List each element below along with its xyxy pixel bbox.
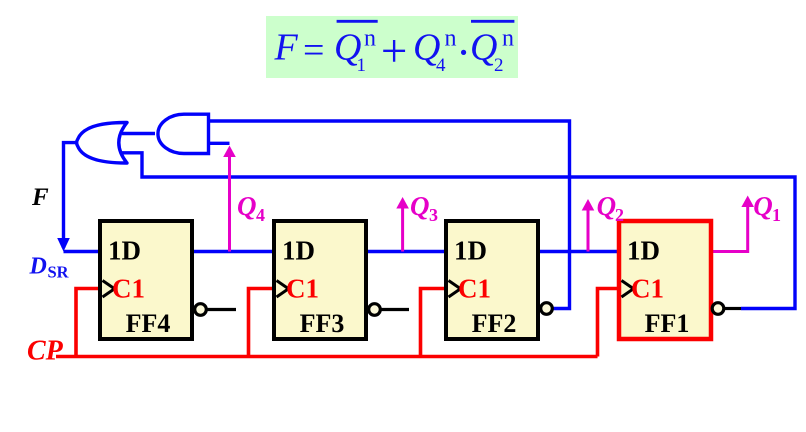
- svg-text:Q: Q: [753, 191, 773, 221]
- svg-text:FF1: FF1: [645, 309, 690, 338]
- svg-text:C1: C1: [631, 274, 664, 304]
- svg-text:2: 2: [615, 205, 624, 225]
- svg-text:n: n: [364, 26, 376, 52]
- svg-text:FF3: FF3: [300, 309, 345, 338]
- svg-text:1: 1: [772, 205, 781, 225]
- svg-text:Q: Q: [410, 191, 430, 221]
- svg-text:C1: C1: [458, 274, 491, 304]
- svg-text:C1: C1: [112, 274, 145, 304]
- svg-text:D: D: [29, 254, 47, 280]
- svg-text:3: 3: [429, 205, 438, 225]
- svg-text:C1: C1: [286, 274, 319, 304]
- svg-text:F: F: [274, 27, 299, 69]
- svg-text:FF2: FF2: [472, 309, 517, 338]
- svg-text:·: ·: [456, 28, 471, 77]
- svg-text:SR: SR: [48, 263, 70, 282]
- svg-text:1D: 1D: [627, 236, 660, 266]
- svg-text:4: 4: [436, 55, 446, 76]
- svg-text:1: 1: [357, 55, 367, 76]
- svg-text:CP: CP: [27, 335, 64, 366]
- svg-text:n: n: [502, 26, 514, 52]
- svg-text:Q: Q: [237, 191, 257, 221]
- svg-text:1D: 1D: [282, 236, 315, 266]
- svg-text:4: 4: [256, 205, 265, 225]
- svg-text:1D: 1D: [108, 236, 141, 266]
- svg-text:FF4: FF4: [126, 309, 171, 338]
- svg-text:2: 2: [494, 55, 504, 76]
- svg-text:1D: 1D: [454, 236, 487, 266]
- svg-text:F: F: [31, 184, 49, 211]
- svg-text:+: +: [381, 26, 408, 78]
- svg-text:=: =: [303, 29, 324, 71]
- svg-text:n: n: [445, 26, 457, 52]
- svg-text:Q: Q: [597, 191, 617, 221]
